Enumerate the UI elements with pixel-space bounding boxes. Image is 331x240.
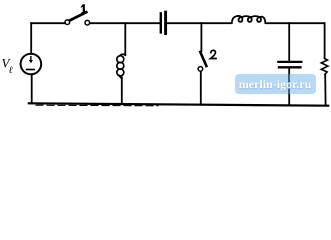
wire: top rail from inductor L2 to top-right corner (266, 22, 325, 24)
voltage source Vg polarity: down arrow (29, 57, 33, 64)
watermark merlin-igor.ru (235, 74, 316, 95)
wire: left riser from source up to top rail (30, 23, 32, 54)
capacitor C2 : bottom plate (279, 66, 300, 68)
wire: dropper from top rail down to switch 2 (200, 23, 202, 51)
wire: dropper from top rail down to capacitor C2 (288, 23, 290, 61)
wire: dropper from top rail down to inductor L1 (124, 23, 126, 55)
switch 1 (65, 12, 90, 25)
resistor R (shunt load, zigzag) (321, 59, 328, 75)
wire: from resistor R bottom down to bottom rail (324, 74, 326, 105)
wire: top rail from switch 1 to capacitor C1 (90, 22, 160, 24)
wire: capacitor C2 wire seen through watermark (288, 74, 290, 94)
wire: from switch 2 down to bottom rail (200, 71, 202, 104)
label: switch 2 designator "2" (211, 50, 217, 58)
voltage source Vg polarity: minus bar (27, 69, 34, 71)
capacitor C1 : right plate (164, 12, 167, 33)
voltage source Vg (circle) (21, 54, 42, 75)
wire: from inductor L1 bottom down to bottom rail (121, 77, 123, 103)
capacitor C1 (series, top rail) : left plate (160, 13, 162, 32)
capacitor C2 (shunt) : top plate (278, 61, 301, 63)
switch 2 (198, 52, 206, 71)
wire: from capacitor C2 bottom plate down to bottom rail (288, 69, 290, 105)
wire: top rail from source corner to switch 1 (31, 22, 65, 24)
wire: bottom rail rough double-stroke fragments (36, 104, 158, 107)
wire: bottom rail (common return) (29, 103, 328, 105)
inductor L2 (series, top rail) (232, 16, 266, 23)
label: source voltage Vg (2, 56, 13, 76)
inductor L1 (vertical shunt coil) (117, 54, 126, 78)
svg-text:ℓ: ℓ (9, 66, 13, 76)
label: switch 1 designator "1" (81, 4, 86, 13)
wire: from source bottom down to bottom rail (31, 74, 33, 103)
wire: top rail from capacitor C1 to inductor L2 (167, 22, 230, 24)
wire: right branch from top-right corner down to resistor R (324, 23, 326, 58)
